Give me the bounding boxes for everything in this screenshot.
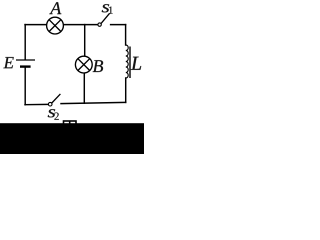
wire middle branch lower (lamp B to bottom wire) xyxy=(83,74,85,104)
wire middle branch upper (junction to lamp B) xyxy=(84,25,86,56)
inductor L core line xyxy=(129,47,131,79)
wire bottom right segment xyxy=(61,102,126,103)
wire left vertical upper (battery to top corner) xyxy=(24,25,26,60)
wire bottom left segment xyxy=(25,103,48,105)
label s1 s xyxy=(102,4,109,12)
wire top-right after switch s1 xyxy=(111,24,126,26)
battery E short plate xyxy=(20,65,31,67)
label A xyxy=(49,2,61,14)
switch s2 xyxy=(48,94,60,106)
label L xyxy=(131,57,141,70)
lamp B xyxy=(75,56,92,73)
wire top-left horizontal xyxy=(25,24,46,26)
switch s1 xyxy=(98,13,110,26)
wire right vertical upper xyxy=(125,25,127,45)
wire left vertical lower (battery to bottom corner) xyxy=(24,67,26,104)
covered character top (partial glyph above black bar) xyxy=(64,121,77,127)
label B xyxy=(93,60,103,72)
label s2 subscript 2 xyxy=(54,113,58,120)
battery E long plate xyxy=(16,59,35,61)
wire top between lamp A and switch s1 xyxy=(64,24,98,26)
inductor L coil xyxy=(126,45,128,78)
lamp A xyxy=(47,17,64,34)
label s1 subscript 1 xyxy=(109,7,113,14)
label s2 s xyxy=(48,109,55,117)
wire right vertical lower xyxy=(125,78,127,102)
black censor bar xyxy=(0,123,144,154)
label E xyxy=(3,57,13,68)
